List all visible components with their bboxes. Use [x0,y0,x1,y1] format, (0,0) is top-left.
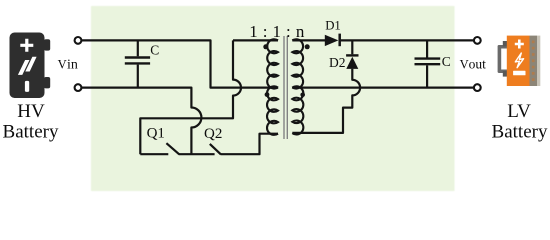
svg-text:Battery: Battery [3,121,59,142]
svg-text:D2: D2 [329,55,346,70]
svg-text:in: in [67,57,78,72]
svg-text:HV: HV [17,101,45,122]
svg-text:V: V [58,57,67,71]
svg-text:C: C [442,54,451,69]
svg-text:Q1: Q1 [147,126,165,142]
svg-text:out: out [469,57,487,72]
svg-text:D1: D1 [325,19,341,33]
svg-text:LV: LV [507,101,531,122]
svg-text:V: V [460,58,469,72]
svg-text:C: C [150,42,159,57]
svg-text:Battery: Battery [492,122,548,143]
svg-text:Q2: Q2 [204,126,222,142]
svg-text:1 : 1 : n: 1 : 1 : n [249,22,305,41]
